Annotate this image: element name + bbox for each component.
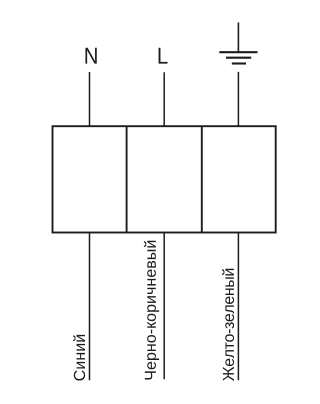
wire label Желто-зеленый bbox=[222, 269, 234, 381]
wire PE top bbox=[237, 72, 239, 126]
wire N top bbox=[89, 72, 91, 126]
wire L top bbox=[163, 72, 165, 126]
wire yellow-green bottom bbox=[237, 233, 239, 381]
wire black-brown bottom bbox=[163, 233, 165, 380]
terminal divider 1 bbox=[126, 126, 128, 232]
ground bbox=[219, 23, 257, 64]
node L label bbox=[159, 48, 168, 64]
terminal block U1 bbox=[53, 126, 276, 232]
wire label Синий bbox=[73, 335, 85, 381]
wire label Черно-коричневый bbox=[144, 241, 159, 380]
wire blue bottom bbox=[89, 233, 91, 381]
node N label bbox=[85, 48, 96, 64]
terminal divider 2 bbox=[201, 126, 203, 232]
